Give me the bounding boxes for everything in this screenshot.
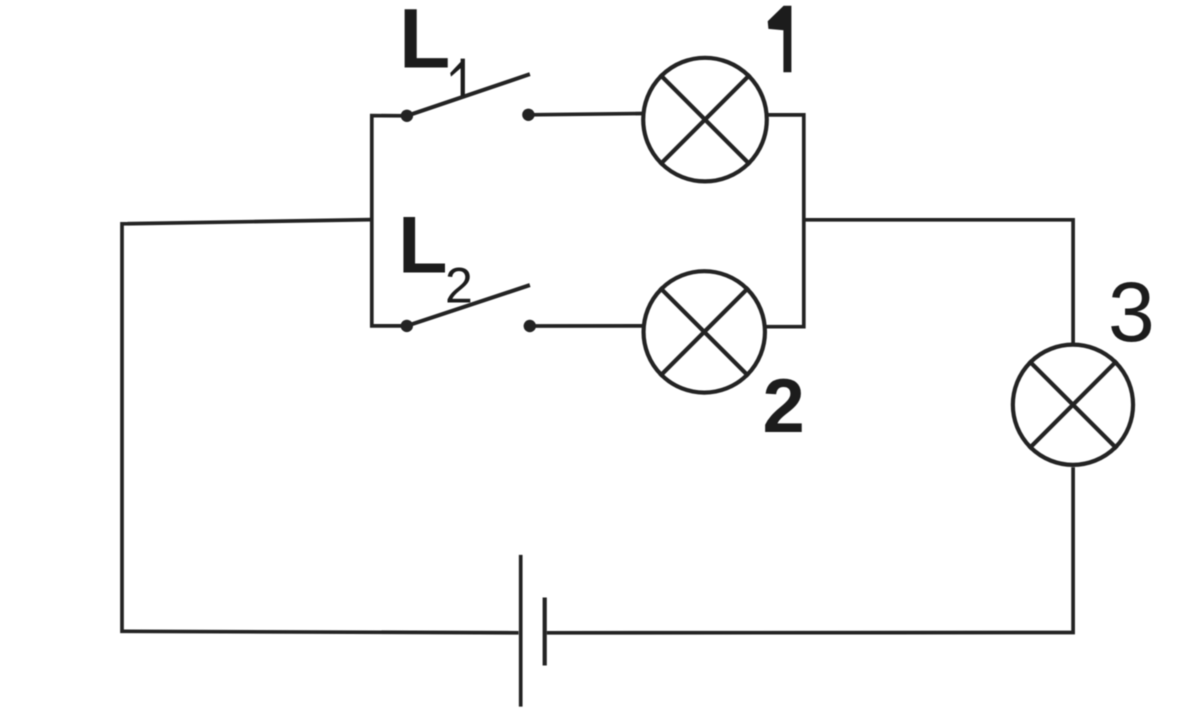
wire: switch L2 contact to lamp 2 (530, 324, 645, 328)
wire: top-right horizontal and right rail upper part down to lamp 3 top (804, 220, 1073, 343)
wire: switch L1 contact to lamp 1 (528, 114, 644, 115)
lamp 1 (643, 58, 767, 182)
lamp 3 (1013, 345, 1133, 465)
svg-text:2: 2 (445, 257, 473, 313)
wire: left loop - top horizontal, left rail vertical, bottom-left segment to battery (122, 220, 519, 633)
switch L2 (401, 286, 536, 332)
battery B1: long plate (519, 555, 523, 707)
svg-text:3: 3 (1108, 265, 1155, 359)
wire: lamps output rail joining lamp 1 and lamp 2 to right node (765, 115, 804, 327)
label: lamp 1 number (768, 6, 792, 73)
lamp 2 (644, 271, 765, 392)
svg-text:L: L (399, 0, 450, 85)
label: switch L1 subscript 1 (450, 59, 465, 97)
switch L1 (401, 75, 535, 122)
battery B1: short plate (543, 598, 547, 666)
wire: switch input rail with stubs to L1 and L2 pivots (372, 116, 407, 326)
wire: bottom-right segment from battery to right rail up to lamp 3 bottom (547, 467, 1073, 633)
svg-text:L: L (398, 201, 447, 291)
svg-text:2: 2 (763, 364, 805, 449)
